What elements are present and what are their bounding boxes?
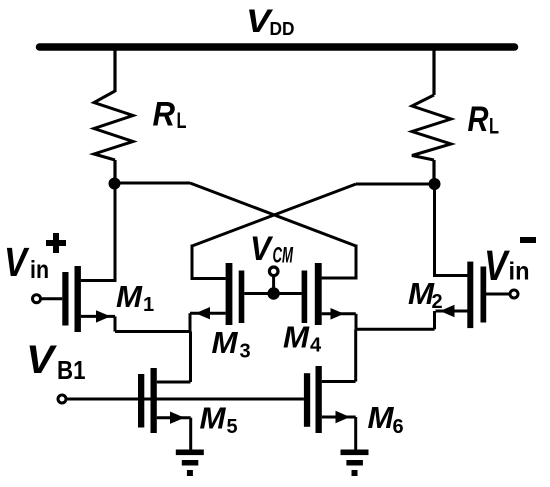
transistor M1 — [33, 266, 116, 332]
M5 source down wire — [189, 418, 192, 451]
wire rail to right resistor — [432, 47, 435, 95]
M3 source wire — [190, 312, 226, 315]
tail wire left — [115, 330, 191, 333]
label M5 — [200, 401, 238, 439]
label RL right — [468, 100, 500, 139]
M1 source down wire — [114, 316, 117, 331]
M3 drain wire — [192, 277, 226, 280]
transistor M2 — [435, 262, 519, 330]
wire right node down to M2 drain — [435, 184, 469, 276]
M5 source arrow — [170, 412, 185, 424]
M1 source arrow — [96, 310, 111, 322]
terminal VCM — [269, 267, 278, 276]
wire to M4 drain — [322, 245, 356, 279]
label Vin- — [484, 237, 536, 290]
label M4 — [283, 320, 322, 357]
svg-text:M: M — [368, 400, 395, 435]
resistor RL right — [412, 95, 451, 160]
node VCM — [267, 287, 279, 299]
M6 drain up wire — [354, 329, 357, 381]
wire right node to cross-couple — [356, 183, 435, 186]
wire left node to cross-couple — [115, 182, 191, 185]
label VDD — [246, 3, 295, 39]
M1 gate bar — [62, 272, 68, 326]
M4 drain wire — [322, 277, 356, 280]
M6 drain wire — [322, 380, 356, 383]
M3 channel bar — [226, 263, 233, 325]
svg-text:6: 6 — [393, 416, 404, 438]
svg-text:4: 4 — [310, 335, 322, 357]
M2 gate bar — [481, 267, 487, 323]
M3 source down wire — [189, 313, 192, 331]
svg-text:B1: B1 — [57, 355, 86, 385]
svg-text:M: M — [212, 325, 239, 360]
svg-text:5: 5 — [227, 416, 238, 438]
wire cross diagonal left-to-right — [190, 183, 356, 246]
label Vin+ — [4, 233, 66, 285]
M1 gate terminal Vin+ — [33, 295, 41, 303]
M6 channel bar — [316, 366, 322, 433]
M4 source wire — [322, 312, 356, 315]
M6 source wire — [322, 416, 356, 419]
M5 drain up wire — [189, 332, 192, 383]
label M2 — [408, 276, 443, 313]
svg-text:1: 1 — [143, 294, 154, 316]
node left output — [109, 178, 121, 190]
M2 gate terminal Vin- — [510, 290, 518, 298]
M5 gate bar — [138, 374, 144, 428]
label VB1 — [26, 338, 86, 385]
node right output — [429, 178, 441, 190]
svg-text:2: 2 — [432, 291, 443, 313]
svg-text:R: R — [468, 100, 490, 139]
M5 drain wire — [157, 381, 191, 384]
M4 gate wire — [277, 292, 302, 295]
wire cross diagonal right-to-left — [192, 184, 356, 246]
svg-text:3: 3 — [240, 341, 251, 363]
wire rail to left resistor — [113, 47, 116, 92]
svg-text:V: V — [250, 230, 274, 268]
svg-text:in: in — [509, 258, 530, 286]
transistor M4 — [277, 263, 356, 329]
M4 channel bar — [315, 263, 322, 325]
ground M5 — [176, 450, 204, 477]
svg-text:M: M — [283, 320, 310, 355]
svg-text:V: V — [26, 338, 57, 382]
svg-text:V: V — [484, 242, 510, 290]
svg-text:M: M — [116, 279, 143, 314]
svg-text:M: M — [200, 401, 227, 436]
M5 source wire — [157, 416, 191, 419]
svg-text:DD: DD — [270, 19, 295, 39]
M4 source down wire — [355, 314, 358, 330]
wire left node down to M1 drain — [81, 183, 115, 281]
wire resistor to left node — [113, 160, 116, 183]
M2 gate wire — [486, 293, 510, 296]
label M6 — [368, 400, 404, 438]
transistor M5 — [138, 332, 191, 451]
wire VCM stem — [272, 276, 275, 290]
M6 source arrow — [336, 411, 351, 423]
ground M6 — [341, 450, 369, 477]
M3 source arrow — [196, 307, 211, 319]
terminal VB1 — [58, 395, 66, 403]
label M3 — [212, 325, 251, 363]
M2 source arrow — [440, 305, 455, 317]
label RL left — [153, 96, 187, 134]
svg-text:L: L — [489, 114, 499, 139]
M6 gate bar — [304, 373, 310, 427]
M2 channel bar — [467, 262, 473, 329]
wire to M3 drain — [192, 245, 226, 279]
M2 source wire — [436, 310, 469, 313]
svg-text:R: R — [153, 96, 176, 134]
M4 source arrow — [331, 308, 345, 320]
svg-text:CM: CM — [273, 243, 294, 268]
transistor M3 — [190, 263, 270, 332]
transistor M6 — [304, 329, 356, 450]
M5 channel bar — [151, 368, 157, 433]
label VCM — [250, 230, 293, 268]
M6 source down wire — [354, 417, 357, 451]
M1 channel bar — [75, 266, 81, 332]
wire VB1 bias line — [66, 398, 304, 401]
M4 gate bar — [302, 271, 308, 324]
svg-text:L: L — [177, 108, 187, 133]
VDD rail — [40, 43, 515, 51]
svg-text:V: V — [4, 239, 30, 285]
M2 source down wire — [433, 311, 436, 329]
svg-text:in: in — [30, 256, 49, 284]
M1 gate wire — [40, 297, 62, 300]
label M1 — [116, 279, 154, 316]
tail wire right — [356, 328, 435, 331]
M3 gate wire — [244, 292, 270, 295]
M1 source wire — [81, 315, 115, 318]
wire resistor to right node — [432, 160, 435, 184]
M3 gate bar — [239, 271, 245, 324]
resistor RL left — [94, 91, 133, 160]
